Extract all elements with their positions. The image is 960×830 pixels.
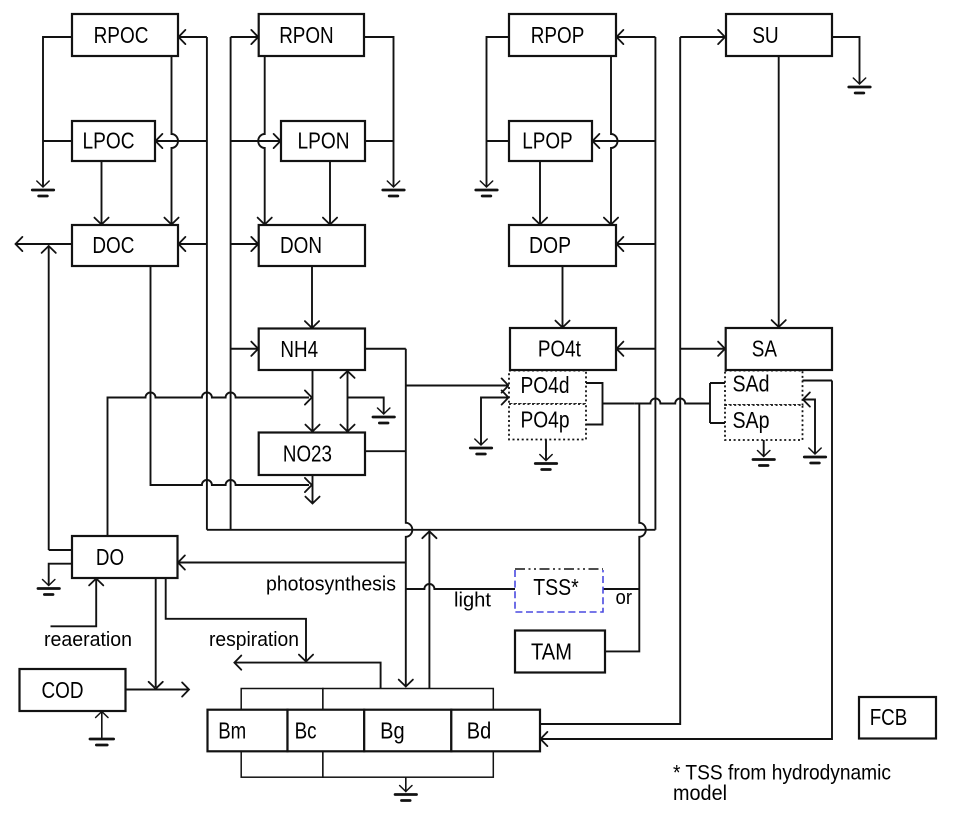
arrow into SAd right	[803, 392, 810, 406]
box FCB	[859, 697, 936, 739]
svg-text:respiration: respiration	[209, 629, 299, 651]
box NO23	[259, 433, 365, 476]
ground PO4d input stem	[475, 439, 487, 445]
wire LPON bottom to DON	[329, 161, 331, 225]
wire SAd right stub into V7	[803, 380, 833, 382]
ground below SAp	[758, 451, 770, 457]
wire DO left lower to ground	[49, 564, 72, 585]
arrow into PO4t top	[555, 321, 569, 328]
svg-text:SAp: SAp	[733, 407, 770, 433]
svg-text:RPOP: RPOP	[531, 22, 585, 48]
arrow into SU left	[718, 30, 725, 44]
wire NH4 right into V5	[365, 348, 406, 350]
wire RPOC left to ground stem	[43, 37, 72, 187]
box DO	[72, 536, 178, 578]
wire DO up to DOC export line x=48.7	[49, 246, 72, 551]
wire SAd return from ground stem	[803, 400, 815, 454]
arrow into DOP right	[617, 237, 624, 251]
box LPOP	[509, 121, 592, 161]
wire DOP feed from V3	[616, 243, 655, 245]
box RPOC	[72, 14, 178, 56]
arrow nitrification into vertical	[305, 390, 312, 404]
wire vertical V7 x=832 down to Bd arrow	[541, 381, 833, 740]
box SAp dotted	[725, 405, 803, 440]
wire SU right to ground	[832, 37, 860, 84]
ground nitrification branch	[378, 408, 390, 414]
wire photosynthesis line into DO	[178, 562, 406, 564]
wire LPON feed from V2	[231, 140, 281, 142]
arrow up into DOC export line from DO	[42, 246, 56, 253]
arrow into PO4d left upper	[502, 378, 509, 392]
arrow into LPON left	[274, 134, 281, 148]
svg-text:SA: SA	[752, 336, 777, 362]
arrow into DOP top from LPOP	[533, 218, 547, 225]
svg-text:SAd: SAd	[733, 371, 770, 397]
arrow into DON top from LPON	[323, 218, 337, 225]
box SAd dotted	[725, 371, 803, 405]
svg-text:COD: COD	[42, 677, 84, 703]
wire NH4 feed from V2	[231, 348, 259, 350]
arrow down DO onto COD line	[149, 682, 163, 689]
arrow up into DO bottom reaeration	[89, 579, 103, 586]
wire top RPON feed from V2	[231, 36, 259, 38]
box Bm	[208, 710, 288, 752]
arrow into RPON left	[251, 30, 258, 44]
wire PO4t feed from V3	[617, 348, 656, 350]
svg-text:photosynthesis: photosynthesis	[266, 574, 396, 596]
arrow into LPOP right	[593, 134, 600, 148]
svg-text:Bc: Bc	[295, 718, 317, 744]
ground left of DO	[43, 580, 55, 586]
wire vertical V4 x=680.2 down to Bd	[541, 37, 681, 724]
box SA	[726, 328, 832, 370]
svg-text:Bg: Bg	[380, 718, 405, 744]
box RPOP	[509, 14, 616, 56]
wire DOC export left	[16, 243, 73, 245]
arrow down DO onto respiration line	[299, 655, 313, 662]
svg-text:RPON: RPON	[279, 22, 334, 48]
arrow into PO4d left lower	[502, 390, 509, 404]
wire PO4-SA exchange line with hops	[634, 399, 710, 404]
svg-text:light: light	[454, 590, 491, 612]
ground SAd return stem	[809, 448, 821, 454]
box TAM	[515, 631, 605, 673]
ground left of RPOP-LPOP	[480, 181, 492, 187]
ground below PO4p	[540, 455, 552, 461]
svg-text:Bd: Bd	[467, 718, 492, 744]
svg-text:model: model	[673, 782, 727, 805]
wire top RPOC feed from V1	[178, 36, 207, 38]
box TSS top dash-dot black edge	[515, 568, 603, 570]
box Bc	[288, 710, 365, 752]
svg-text:PO4t: PO4t	[538, 336, 581, 362]
wire vertical V5 x=405.8 with hop at y=529.8	[406, 349, 413, 686]
arrow into SA left	[718, 342, 725, 356]
arrow into SA top	[772, 320, 786, 327]
wire PO4p bottom to ground	[545, 440, 547, 461]
wire vertical V3 x=655.4	[654, 37, 656, 530]
wire LPOC feed from V1	[155, 140, 207, 142]
svg-text:DO: DO	[96, 544, 124, 570]
box TSS blue dashed	[515, 569, 603, 612]
wire PO4d ground input	[481, 398, 509, 445]
svg-text:LPON: LPON	[298, 128, 350, 154]
wire DON feed from V2	[231, 243, 259, 245]
wire light line with hop over V6	[406, 584, 515, 589]
box DOC	[72, 225, 178, 266]
svg-text:TSS*: TSS*	[533, 574, 579, 600]
wire vertical V1 x=206.9	[206, 37, 208, 530]
ground below COD with arrow up into COD	[101, 712, 103, 738]
wire RPON right to ground stem	[364, 37, 394, 187]
B background rect right	[323, 689, 493, 778]
svg-text:NO23: NO23	[283, 441, 332, 467]
arrow down V5 into B rect	[399, 680, 413, 687]
svg-text:reaeration: reaeration	[44, 629, 132, 651]
wire RPOP bottom to DOP with hop	[611, 56, 618, 225]
ground below RPOC-LPOC left	[37, 181, 49, 187]
box DON	[259, 225, 365, 266]
wire LPOP feed from V3	[592, 140, 655, 142]
box SU	[726, 14, 832, 56]
arrow into PO4t right	[617, 342, 624, 356]
arrow into NO23 top left	[305, 425, 319, 432]
wire SAp bottom to ground	[763, 440, 765, 456]
box DOP	[509, 225, 616, 266]
svg-text:LPOP: LPOP	[522, 128, 573, 154]
wire vertical V2 x=230.6	[230, 37, 232, 530]
box LPON	[281, 121, 365, 161]
box NH4	[259, 329, 365, 371]
wire PO4d feed from V5	[406, 385, 509, 387]
wire RPON bottom to DON with hop bulge left	[258, 56, 265, 225]
wire algae recycle line y=529.8	[207, 529, 656, 531]
wire LPOC bottom to DOC	[101, 161, 103, 225]
wire DO bottom to COD export line	[155, 578, 157, 687]
wire SA feed from V4	[680, 348, 725, 350]
wire DO bottom to respiration drop	[166, 578, 306, 661]
arrow into NH4 top	[305, 321, 319, 328]
wire top P distribution	[617, 36, 656, 38]
wire DOP bottom to PO4t	[562, 266, 564, 328]
wire NH4 to NO23 left vertical	[312, 370, 314, 432]
arrow down into NO23 top right	[340, 425, 354, 432]
ground right of RPON-LPON	[387, 181, 399, 187]
svg-text:SU: SU	[752, 22, 779, 48]
wire NO23 bottom export	[312, 475, 314, 503]
arrow into DOC top from LPOC	[94, 218, 108, 225]
arrow COD export right	[182, 682, 189, 696]
wire RPOP left to ground stem	[487, 37, 510, 187]
wire vertical x=639.3 TSS-TAM selector with hop at recycle line	[603, 404, 646, 652]
box PO4p dotted	[509, 404, 586, 440]
wire nitrification ground branch	[348, 398, 384, 414]
svg-text:LPOC: LPOC	[83, 128, 135, 154]
svg-text:NH4: NH4	[280, 336, 318, 362]
arrow into RPOP right	[617, 30, 624, 44]
svg-text:PO4p: PO4p	[521, 407, 570, 433]
box Bg	[364, 710, 451, 752]
arrow into DON top from RPON	[258, 218, 272, 225]
wire vertical V6 x=429.4 algae up-flow	[428, 531, 430, 688]
wire DON bottom to NH4	[311, 266, 313, 329]
svg-text:RPOC: RPOC	[94, 22, 149, 48]
B background rect left	[241, 689, 323, 778]
svg-text:PO4d: PO4d	[521, 372, 570, 398]
svg-text:DON: DON	[280, 232, 322, 258]
box PO4d dotted	[509, 371, 586, 404]
wire NO23 right into V5	[365, 450, 406, 452]
arrow respiration export left	[234, 656, 241, 670]
wire DOC bottom to denitrification line y=485	[151, 266, 310, 485]
arrow into LPOC right	[156, 134, 163, 148]
wire DOC feed from V1	[178, 243, 207, 245]
box LPOC	[72, 121, 155, 161]
wire LPOP bottom to DOP	[539, 161, 541, 225]
box RPON	[259, 14, 364, 56]
wire respiration line to B rect	[234, 663, 380, 689]
arrow into DO right photosynthesis	[178, 555, 185, 569]
arrow into DOC right	[179, 237, 186, 251]
arrow up into recycle line from V6	[422, 531, 436, 538]
wire DO up to nitrification line y=397.5	[108, 393, 310, 537]
arrow into DOC top from RPOC	[164, 218, 178, 225]
arrow up into NH4 bottom	[340, 371, 354, 378]
arrow NO23 export down	[305, 497, 319, 504]
wire NH4-NO23 right bidirectional vertical	[347, 371, 349, 433]
ground below B boxes	[405, 777, 407, 791]
box Bd	[451, 710, 540, 752]
wire SU bottom to SA	[778, 56, 780, 328]
wire SU feed from V4	[680, 36, 725, 38]
svg-text:FCB: FCB	[870, 704, 908, 730]
arrow DOC export left	[16, 237, 23, 251]
wire reaeration into DO bottom	[51, 579, 97, 627]
box COD	[20, 669, 126, 711]
arrow into NH4 left	[251, 342, 258, 356]
arrow into RPOC right	[179, 30, 186, 44]
arrow denitrification into vertical	[305, 478, 312, 492]
arrow into DOP top from RPOP	[604, 218, 618, 225]
svg-text:Bm: Bm	[218, 718, 246, 744]
svg-text:TAM: TAM	[531, 639, 572, 665]
wire SAd-SAp left bracket	[710, 383, 725, 423]
svg-text:DOC: DOC	[92, 232, 134, 258]
arrow into Bd right	[541, 732, 548, 746]
arrow into DON left	[251, 237, 258, 251]
ground right of SU	[853, 78, 865, 84]
wire RPOC bottom to DOC with hop at y=141	[172, 56, 179, 225]
wire PO4d-PO4p right bracket	[586, 383, 634, 425]
wire COD export right	[126, 689, 190, 691]
svg-text:or: or	[616, 587, 633, 609]
box PO4t	[510, 328, 616, 370]
svg-text:DOP: DOP	[529, 232, 571, 258]
